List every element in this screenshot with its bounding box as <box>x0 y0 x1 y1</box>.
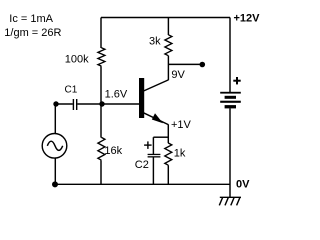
transistor Q1 base bar <box>139 78 144 118</box>
wire C2 branch upper <box>152 137 154 154</box>
wire emitter vertical <box>167 124 169 143</box>
node input dot <box>53 101 58 106</box>
node B junction dot <box>99 101 104 106</box>
wire source lower <box>54 158 56 184</box>
wire left branch mid <box>100 66 102 104</box>
battery B1 plates <box>220 92 241 109</box>
wire right rail upper <box>229 18 231 93</box>
wire C2 branch lower <box>152 157 154 184</box>
source V1 AC circle <box>42 134 67 159</box>
ground symbol <box>219 197 241 205</box>
wire C2 branch horizontal <box>153 136 168 138</box>
wire left branch upper <box>100 18 102 49</box>
wire 16k branch upper <box>100 104 102 138</box>
svg-text:100k: 100k <box>65 53 89 65</box>
svg-text:9V: 9V <box>171 69 185 81</box>
svg-text:3k: 3k <box>149 35 161 47</box>
wire 1k lower <box>167 165 169 184</box>
node output dot <box>200 62 206 68</box>
capacitor C2 <box>148 154 161 158</box>
svg-text:C1: C1 <box>65 85 78 96</box>
resistor R4 1k <box>165 143 172 165</box>
svg-text:1k: 1k <box>174 147 186 159</box>
svg-text:0V: 0V <box>236 179 250 191</box>
svg-text:+12V: +12V <box>234 12 261 24</box>
resistor R2 16k <box>98 137 105 160</box>
wire collector output <box>168 63 200 65</box>
resistor R3 3k <box>165 35 172 56</box>
source V1 sine wave <box>47 141 62 150</box>
label C2 polarity + <box>144 141 152 149</box>
wire base left segment <box>56 103 73 105</box>
battery B1 plus <box>233 77 240 84</box>
svg-text:16k: 16k <box>104 145 122 157</box>
wire bottom rail <box>55 183 230 185</box>
wire collector vertical <box>167 56 169 80</box>
node source bottom dot <box>52 181 58 187</box>
wire 16k branch lower <box>100 160 102 184</box>
transistor Q1 collector lead <box>144 80 169 91</box>
wire top rail <box>101 17 230 19</box>
capacitor C1 <box>73 99 78 110</box>
svg-text:C2: C2 <box>135 159 149 171</box>
resistor R1 100k <box>98 48 105 66</box>
wire base right segment <box>77 103 139 105</box>
svg-text:+1V: +1V <box>171 119 192 131</box>
svg-text:Ic = 1mA: Ic = 1mA <box>9 13 53 25</box>
wire right rail lower <box>229 108 231 197</box>
transistor Q1 emitter arrow <box>152 113 163 123</box>
wire 3k branch top <box>167 18 169 36</box>
transistor Q1 emitter lead <box>144 113 169 125</box>
wire source upper <box>54 104 56 133</box>
svg-text:1.6V: 1.6V <box>105 88 128 100</box>
svg-text:1/gm = 26R: 1/gm = 26R <box>4 27 61 39</box>
